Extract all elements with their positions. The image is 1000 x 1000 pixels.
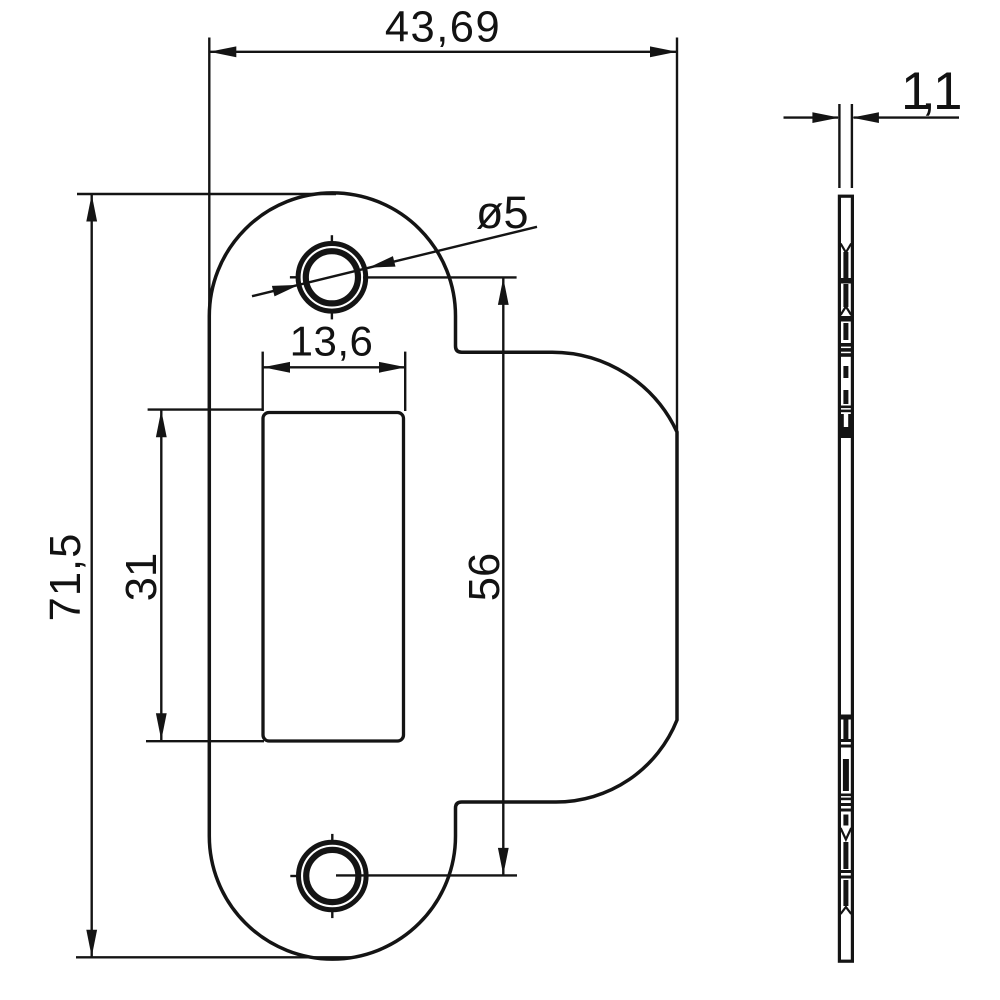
side view: inner edge bar 252-278 <box>843 252 848 278</box>
side view: inner edge bar 323-340 <box>843 323 848 340</box>
bottom hole centerline tick left <box>290 875 300 877</box>
dimension 13,6: left extension line <box>262 352 264 411</box>
side view: side bars 414-427 <box>841 414 844 427</box>
bottom screw hole outer circle <box>299 842 367 910</box>
dimension 31: bottom extension line <box>146 740 264 742</box>
dimension 71,5: dimension line <box>90 195 92 957</box>
side view: horizontal band 278-284 <box>841 278 851 284</box>
dimension 13,6: right arrowhead <box>379 362 406 373</box>
diameter ø5 upper-right arrowhead <box>369 256 396 268</box>
dimension 43,69: right arrowhead <box>650 46 677 57</box>
dimension 1,1: left arrowhead (pointing right) <box>812 112 839 123</box>
bottom hole centerline tick bottom <box>331 908 333 918</box>
top hole centerline tick top <box>331 235 333 245</box>
dimension 71,5: top arrowhead <box>86 195 97 222</box>
side view: inner edge bar 719-739 <box>843 719 848 739</box>
top hole centerline tick left <box>290 276 300 278</box>
dimension 1,1: left extension line <box>838 104 840 188</box>
dimension 31: top arrowhead <box>156 410 167 437</box>
dimension 71,5: top extension line <box>77 193 336 195</box>
side view: horizontal lines 739-748 <box>841 739 851 742</box>
dimension 43,69: right extension line <box>676 38 678 433</box>
side view: inner edge bar 814-826 <box>843 815 848 826</box>
latch cutout rectangle <box>263 413 404 742</box>
side view: inner edge bar 284-307 <box>843 284 848 307</box>
side view: solid band 427-438 <box>841 427 851 438</box>
svg-text:ø5: ø5 <box>476 187 529 238</box>
svg-text:43,69: 43,69 <box>385 3 501 51</box>
dimension 56: bottom extension line <box>336 874 517 876</box>
side view outline <box>839 196 852 961</box>
side view: bottom countersink upper chevron <box>841 828 852 840</box>
dimension 56: dimension line <box>502 278 504 875</box>
side view: inner edge bar 390-404 <box>843 390 848 404</box>
svg-text:56: 56 <box>461 553 509 601</box>
dimension 13,6: right extension line <box>404 352 406 411</box>
dimension 56: top arrowhead <box>498 278 509 305</box>
diameter ø5 leader line <box>252 227 537 296</box>
diameter ø5 lower-left arrowhead <box>272 285 299 297</box>
dimension 1,1: dimension line left part <box>784 116 839 118</box>
svg-text:13,6: 13,6 <box>290 318 374 365</box>
side view: horizontal lines 405-412 <box>841 406 851 409</box>
dimension 13,6: left arrowhead <box>263 362 290 373</box>
side view: inner edge bar 759-791 <box>843 759 849 791</box>
top screw hole outer circle <box>298 243 366 311</box>
top hole centerline tick bottom <box>331 309 333 319</box>
side view: horizontal band 714-719 <box>841 715 851 720</box>
dimension 71,5: bottom extension line <box>76 956 352 958</box>
dimension 56: bottom arrowhead <box>498 848 509 875</box>
svg-text:31: 31 <box>118 553 166 601</box>
side view: horizontal band 316-322 <box>841 316 851 322</box>
dimension 43,69: left arrowhead <box>209 46 236 57</box>
dimension 13,6: dimension line <box>263 366 406 368</box>
dimension 1,1: right extension line <box>851 104 853 188</box>
side view: top countersink lower chevron <box>841 307 852 316</box>
side view: top countersink upper chevron <box>841 244 852 253</box>
side view: bend lines 343-357 <box>841 343 851 347</box>
plate outline (front view) <box>209 193 677 959</box>
dimension 31: bottom arrowhead <box>156 713 167 740</box>
dimension 1,1: dimension line right part <box>854 116 960 118</box>
side view: inner edge bar 842-869 <box>843 842 848 869</box>
bottom screw hole inner circle <box>306 850 358 902</box>
side view: horizontal lines 793-800 <box>841 794 851 797</box>
dimension 56: top extension line <box>363 276 517 278</box>
top screw hole inner circle <box>306 251 358 303</box>
dimension 31: top extension line <box>148 408 263 410</box>
svg-text:71,5: 71,5 <box>42 533 90 622</box>
side view: bottom countersink lower chevron <box>841 907 852 914</box>
side view: horizontal lines 870-878 <box>841 870 851 873</box>
dimension 43,69: left extension line <box>208 38 210 319</box>
side view: horizontal lines 803-812 <box>841 803 851 806</box>
dimension 1,1: right arrowhead (pointing left) <box>852 112 879 123</box>
side view: inner edge bar 880-906 <box>843 880 848 906</box>
bottom hole centerline tick top <box>331 834 333 844</box>
dimension 43,69: dimension line <box>209 51 677 53</box>
svg-text:1,1: 1,1 <box>901 62 962 121</box>
side view: inner edge bar 366-378 <box>843 366 848 378</box>
dimension 71,5: bottom arrowhead <box>86 930 97 957</box>
dimension 31: dimension line <box>160 410 162 740</box>
